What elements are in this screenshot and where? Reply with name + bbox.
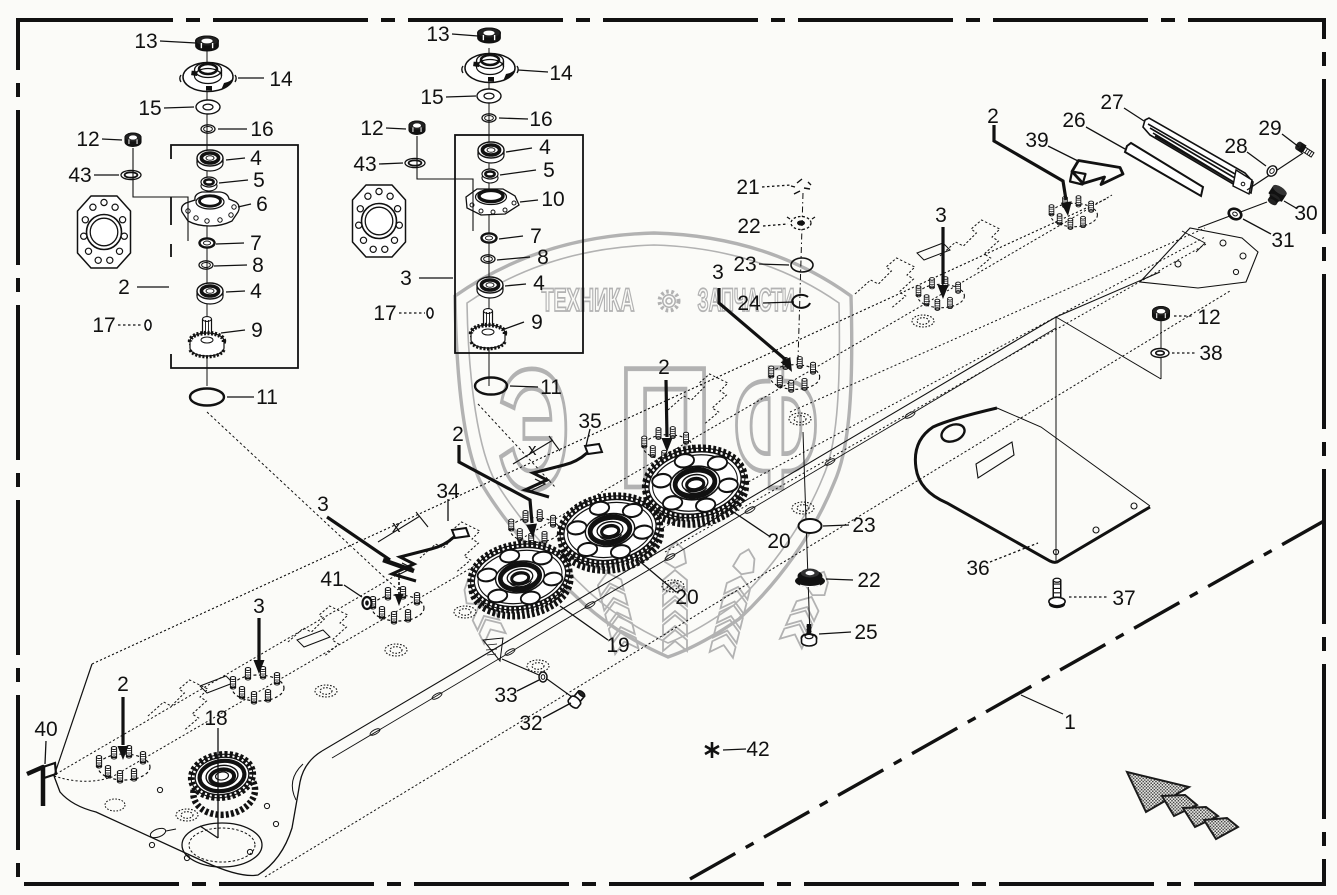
key 17 (stack2) <box>427 308 433 318</box>
bolt 25 <box>802 624 817 646</box>
svg-text:32: 32 <box>519 712 542 735</box>
svg-text:17: 17 <box>373 302 396 325</box>
svg-text:41: 41 <box>320 568 343 591</box>
svg-text:27: 27 <box>1100 91 1123 114</box>
stack2 axis dotted leader <box>478 404 556 488</box>
svg-text:3: 3 <box>400 267 412 290</box>
svg-text:14: 14 <box>549 62 573 85</box>
deck relief cutout 5 <box>855 258 915 308</box>
svg-text:10: 10 <box>541 188 564 211</box>
arrow to station 6 (label 3) <box>719 288 786 360</box>
cover 36 <box>915 408 1150 562</box>
svg-text:4: 4 <box>533 272 545 295</box>
svg-text:3: 3 <box>253 595 265 618</box>
inner shoe details <box>105 764 303 867</box>
clamp 39 <box>1070 161 1123 185</box>
sprocket station 2 <box>230 667 284 705</box>
bearing seat ring 3 <box>385 644 407 656</box>
housing 6 (stack1) <box>182 192 240 226</box>
bolt 29 <box>1294 141 1315 159</box>
arrow to station 7 (label 3) <box>941 227 944 284</box>
dotted axis 12-38 <box>1160 322 1162 348</box>
svg-text:33: 33 <box>494 684 517 707</box>
stack1 axis dotted leader <box>207 412 398 590</box>
svg-text:3: 3 <box>935 204 947 227</box>
bracket 40 <box>27 763 56 806</box>
svg-text:1: 1 <box>1064 711 1076 734</box>
bearing 4 (stack1 lower) <box>197 283 223 304</box>
svg-text:3: 3 <box>712 261 724 284</box>
gear 18 <box>188 750 258 818</box>
arrow to station 8 (label 2) <box>994 125 1066 200</box>
gear 20 (upper) <box>640 441 751 531</box>
cover axis line <box>1056 308 1161 563</box>
sprocket station 4 <box>509 510 560 546</box>
axis line 29-28 <box>1247 153 1303 190</box>
bearing seat ring 6 <box>662 580 684 592</box>
svg-text:14: 14 <box>269 68 293 91</box>
nut 13 (stack2) <box>478 28 501 43</box>
stack2 axis line <box>488 48 490 386</box>
deck triangle flag <box>483 638 503 661</box>
deck relief cutout 4 <box>668 374 728 424</box>
svg-text:5: 5 <box>253 169 265 192</box>
bar right end plate <box>1140 228 1258 288</box>
svg-text:16: 16 <box>529 108 552 131</box>
svg-text:20: 20 <box>675 586 698 609</box>
bearing 4 (stack1 upper) <box>197 150 223 171</box>
svg-text:4: 4 <box>539 136 551 159</box>
svg-text:2: 2 <box>118 276 130 299</box>
arrow to station 5 (label 2) <box>666 380 667 437</box>
leader 1 <box>1021 695 1063 714</box>
stack1 axis line <box>206 48 208 386</box>
washer 43 (stack1) <box>121 170 141 179</box>
svg-text:23: 23 <box>733 253 756 276</box>
leader 30 to plate <box>1198 202 1267 228</box>
svg-text:Э: Э <box>498 334 570 526</box>
gear shaft 9 (stack1) <box>190 317 224 357</box>
svg-text:38: 38 <box>1199 342 1222 365</box>
grommet 22 (lower) <box>795 569 825 588</box>
sprocket station 6 <box>769 357 820 393</box>
deck box 3 <box>917 243 950 260</box>
housing 10 (stack2) <box>466 189 519 215</box>
ring 16 (stack1) <box>201 125 215 133</box>
washer 28 <box>1265 164 1279 178</box>
svg-text:x: x <box>528 440 537 459</box>
box 3 (stack2) <box>455 135 583 353</box>
svg-text:4: 4 <box>250 147 262 170</box>
ring 8 (stack1) <box>199 261 213 269</box>
svg-text:6: 6 <box>256 193 268 216</box>
bearing seat ring 2 <box>315 685 337 697</box>
bearing seat ring 1 <box>176 809 198 821</box>
svg-text:18: 18 <box>204 707 227 730</box>
spring clip 35 <box>525 444 602 497</box>
svg-text:19: 19 <box>606 634 629 657</box>
ring 7 (stack1) <box>200 238 215 247</box>
dim x (35) <box>513 436 560 464</box>
bolt axis path (stack2) <box>417 136 473 231</box>
sprocket station 3 <box>370 587 424 625</box>
svg-text:9: 9 <box>531 311 543 334</box>
deck relief cutout 1 <box>148 680 208 730</box>
svg-text:39: 39 <box>1025 129 1048 152</box>
part number labels <box>34 23 1317 764</box>
arrow 18 leader <box>200 728 218 838</box>
svg-text:26: 26 <box>1062 109 1085 132</box>
svg-text:37: 37 <box>1112 587 1135 610</box>
svg-text:8: 8 <box>252 254 264 277</box>
deck relief cutout 3 <box>420 522 480 572</box>
svg-text:28: 28 <box>1224 135 1247 158</box>
bearing seat ring 5 <box>527 660 549 672</box>
bracket 2 (stack1) <box>171 145 298 368</box>
leader 33-flag <box>502 659 572 697</box>
svg-text:2: 2 <box>452 423 464 446</box>
svg-text:43: 43 <box>353 153 376 176</box>
spring clip 34 <box>392 528 469 581</box>
svg-text:11: 11 <box>540 376 562 399</box>
flange 14 (stack2) <box>462 54 518 83</box>
bearing seat ring 9 <box>789 413 811 425</box>
svg-text:22: 22 <box>737 215 760 238</box>
svg-text:24: 24 <box>737 292 761 315</box>
svg-text:12: 12 <box>360 117 383 140</box>
gear shaft 9 (stack2) <box>471 309 505 349</box>
arrow to station 3 (label 3) <box>327 517 414 606</box>
svg-text:43: 43 <box>68 164 91 187</box>
svg-text:15: 15 <box>420 86 443 109</box>
svg-text:12: 12 <box>76 128 99 151</box>
washer 43 (stack2) <box>405 158 425 167</box>
svg-text:15: 15 <box>138 97 161 120</box>
arrow to station 2 (label 3) <box>257 618 260 660</box>
nut 12 (stack1) <box>125 133 141 147</box>
svg-text:40: 40 <box>34 718 57 741</box>
deck relief cutout 6 <box>940 220 1000 270</box>
bolt axis path (stack1) <box>133 148 188 241</box>
washer 15 (stack2) <box>477 89 501 103</box>
gear 20 (middle) <box>555 489 666 577</box>
sprocket station 5 <box>642 427 693 463</box>
svg-text:2: 2 <box>117 673 129 696</box>
svg-text:20: 20 <box>767 530 790 553</box>
deck box 2 <box>297 630 330 647</box>
dim x (34) <box>378 512 428 542</box>
svg-text:3: 3 <box>317 493 329 516</box>
flange 14 (stack1) <box>180 63 236 92</box>
arrow to station 1 (label 2) <box>121 697 124 745</box>
ring 8 (stack2) <box>481 255 495 263</box>
grommet 41 <box>363 597 372 609</box>
ring 7 (stack2) <box>482 233 497 242</box>
svg-text:22: 22 <box>857 569 880 592</box>
flange housing (stack2) <box>353 185 406 257</box>
washer 15 (stack1) <box>196 100 220 114</box>
clip 21 <box>791 179 811 194</box>
washer 38 <box>1151 349 1169 358</box>
ring 33 <box>539 672 547 682</box>
bearing 4 (stack2 upper) <box>478 142 504 163</box>
bearing 4 (stack2 lower) <box>477 277 503 298</box>
svg-text:7: 7 <box>250 232 262 255</box>
svg-text:36: 36 <box>966 557 989 580</box>
bolt 32 <box>567 688 588 710</box>
nut 12 (stack2) <box>409 121 425 135</box>
o-ring 11 (stack2) <box>475 378 507 395</box>
svg-text:31: 31 <box>1271 229 1294 252</box>
svg-text:17: 17 <box>92 314 115 337</box>
svg-text:7: 7 <box>530 225 542 248</box>
knife bar 27 <box>1143 118 1253 194</box>
watermark shield logo <box>455 233 852 658</box>
svg-text:2: 2 <box>658 356 670 379</box>
o-ring 11 (stack1) <box>190 389 224 406</box>
svg-text:8: 8 <box>537 246 549 269</box>
deck relief cutout 2 <box>288 606 348 656</box>
svg-text:16: 16 <box>250 118 273 141</box>
svg-text:11: 11 <box>256 386 278 409</box>
sleeve 5 (stack1) <box>201 177 217 191</box>
svg-text:9: 9 <box>251 319 263 342</box>
svg-text:21: 21 <box>736 176 759 199</box>
flange housing (stack1) <box>78 196 131 268</box>
ring 23 (lower) <box>799 519 822 533</box>
plug 30 <box>1264 183 1288 208</box>
gear 19 (lower) <box>466 537 575 622</box>
ring 16 (stack2) <box>482 114 496 122</box>
sprocket station 7 <box>916 277 964 311</box>
grommet 22 (upper) <box>787 217 815 230</box>
nut 13 (stack1) <box>196 36 219 51</box>
svg-text:12: 12 <box>1197 306 1220 329</box>
svg-text:5: 5 <box>543 159 555 182</box>
deck box 1 <box>200 676 233 693</box>
bearing seat ring 8 <box>912 315 934 327</box>
svg-text:4: 4 <box>250 280 262 303</box>
bearing seat ring 4 <box>454 606 476 618</box>
ring 23 (upper) <box>791 258 813 272</box>
svg-text:ТЕХНИКА: ТЕХНИКА <box>542 282 635 318</box>
svg-text:23: 23 <box>852 514 875 537</box>
nut 12 (right) <box>1152 307 1169 321</box>
svg-text:2: 2 <box>987 105 999 128</box>
bolt 37 <box>1049 578 1065 608</box>
svg-text:x: x <box>392 517 401 536</box>
wear plate 26 <box>1125 143 1203 196</box>
arrow to station 4 (label 2) <box>459 445 532 523</box>
svg-text:29: 29 <box>1258 117 1281 140</box>
sprocket station 8 <box>1049 196 1097 230</box>
ring 31 <box>1227 207 1243 222</box>
bearing seat ring 7 <box>792 502 814 514</box>
sprocket station 1 <box>96 746 150 784</box>
svg-text:30: 30 <box>1294 202 1317 225</box>
axis line 1 <box>690 521 1324 879</box>
sleeve 5 (stack2) <box>482 169 498 183</box>
svg-text:25: 25 <box>854 621 877 644</box>
svg-text:13: 13 <box>426 23 449 46</box>
direction arrow logo <box>1127 772 1238 839</box>
front face slots <box>369 410 916 736</box>
key 17 (stack1) <box>145 320 151 330</box>
axis line 23-25 <box>803 432 810 637</box>
snap ring 24 <box>792 295 810 308</box>
svg-text:42: 42 <box>746 738 769 761</box>
asterisk 42 <box>705 742 719 758</box>
cutter bar outline <box>54 195 1230 877</box>
axis line 21-24 <box>798 193 803 360</box>
svg-text:13: 13 <box>134 30 157 53</box>
